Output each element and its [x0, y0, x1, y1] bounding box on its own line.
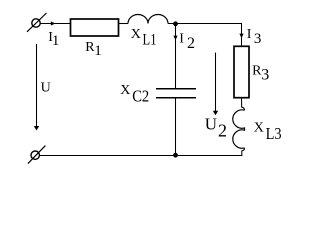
label X_L3 [254, 120, 282, 143]
wire capacitor to bottom bus [175, 98, 177, 156]
arrowhead current I1 [51, 21, 56, 25]
terminal top-left [27, 13, 47, 32]
node junction dot bottom [173, 153, 178, 158]
label R1 [85, 40, 102, 59]
wire L3 to bottom bus [242, 148, 245, 156]
inductor L1 [128, 15, 168, 24]
svg-text:X: X [120, 83, 130, 98]
svg-text:X: X [254, 120, 264, 135]
wire L1 to corner, top bus [168, 23, 242, 25]
terminal bottom-left [28, 146, 46, 164]
inductor L3 [233, 110, 245, 148]
label I1 [48, 30, 59, 49]
label X_C2 [120, 83, 149, 106]
label U2 [205, 115, 227, 141]
svg-text:U: U [41, 81, 51, 96]
wire R3 to L3 [242, 98, 245, 111]
capacitor C2 plates [156, 89, 196, 98]
svg-text:3: 3 [254, 31, 262, 47]
svg-text:2: 2 [218, 121, 227, 141]
label X_L1 [131, 27, 157, 49]
wire right branch corner down [241, 23, 243, 46]
voltage arrow U [36, 44, 38, 127]
svg-text:C2: C2 [132, 87, 149, 106]
svg-text:3: 3 [261, 66, 269, 83]
svg-text:X: X [131, 27, 141, 42]
label R3 [252, 63, 269, 83]
bottom bus wire [39, 155, 242, 157]
wire terminal to R1 [40, 23, 70, 25]
svg-text:L1: L1 [143, 32, 157, 49]
svg-text:I: I [247, 27, 252, 42]
arrowhead current I3 [239, 34, 243, 39]
wire R1 to L1 [119, 23, 129, 25]
svg-text:I: I [179, 31, 184, 46]
label I3 [247, 27, 262, 47]
svg-text:L3: L3 [266, 124, 282, 143]
label I2 [179, 31, 195, 51]
svg-text:1: 1 [52, 33, 60, 49]
resistor R3 [234, 46, 249, 97]
voltage arrow U2 [215, 53, 217, 112]
node junction dot top [173, 21, 178, 26]
resistor R1 [71, 19, 119, 36]
svg-text:2: 2 [187, 35, 195, 52]
wire middle branch down to capacitor [175, 24, 177, 89]
svg-text:U: U [205, 115, 217, 134]
arrowhead current I2 [173, 36, 177, 41]
svg-text:1: 1 [94, 43, 102, 59]
